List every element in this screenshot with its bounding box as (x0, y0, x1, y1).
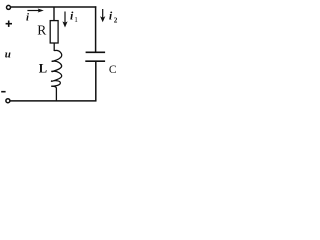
wire stub between R and L (53, 43, 55, 51)
capacitor C bottom plate (85, 60, 105, 62)
wire middle branch top stub (53, 7, 55, 21)
wire coil bottom stub (51, 86, 56, 101)
svg-text:i: i (109, 9, 113, 23)
arrowhead of i2 (100, 16, 105, 22)
capacitor C top plate (86, 51, 106, 53)
label + (plus sign) (6, 23, 12, 25)
svg-text:i: i (26, 12, 29, 24)
current arrow i shaft (top) (27, 10, 39, 12)
terminal bottom-left (6, 99, 10, 103)
terminal top-left (7, 5, 11, 9)
svg-text:u: u (5, 49, 11, 61)
arrowhead of i (38, 9, 44, 13)
svg-text:2: 2 (114, 17, 118, 25)
wire right branch lower stub (95, 62, 97, 101)
svg-text:L: L (39, 62, 47, 76)
arrowhead of i1 (62, 21, 67, 27)
svg-text:R: R (37, 22, 46, 37)
inductor L coil (51, 50, 61, 86)
wire right branch upper stub (95, 6, 97, 51)
label - (minus sign) (1, 91, 5, 93)
svg-text:C: C (109, 64, 117, 76)
resistor R box (50, 21, 58, 43)
current arrow i2 shaft (102, 9, 104, 19)
current arrow i1 shaft (64, 12, 66, 24)
coil cusp knots (51, 60, 53, 82)
wire bottom horizontal (10, 100, 96, 102)
wire top horizontal (11, 6, 96, 8)
svg-text:1: 1 (74, 16, 78, 24)
